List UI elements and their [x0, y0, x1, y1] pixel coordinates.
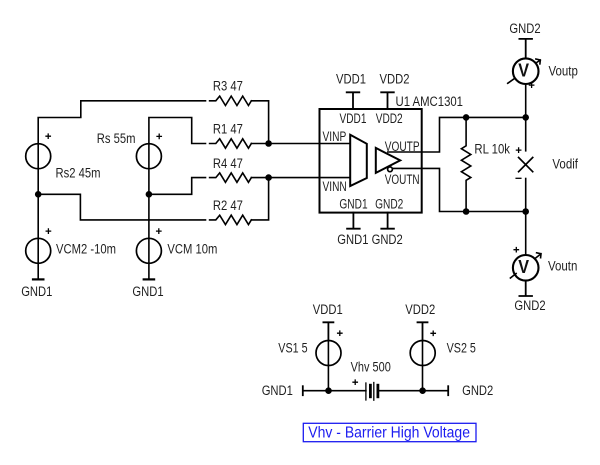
node VINN junction — [266, 175, 271, 180]
svg-text:VDD1: VDD1 — [336, 72, 366, 87]
pin GND2 bottom stub — [381, 213, 394, 229]
svg-text:RL 10k: RL 10k — [474, 141, 510, 156]
terminal VDD2 above VS2 — [418, 322, 428, 340]
wire VINN inside — [320, 177, 351, 179]
resistor R3 47 — [210, 96, 252, 105]
battery Vhv 500 — [366, 383, 378, 401]
node VINP junction — [266, 141, 271, 146]
svg-text:VDD1: VDD1 — [313, 302, 343, 317]
voltage source VS1 5 — [316, 341, 341, 366]
wire rail right — [378, 390, 448, 392]
svg-text:VOUTP: VOUTP — [385, 139, 420, 154]
svg-text:R1 47: R1 47 — [213, 122, 243, 137]
svg-text:R2 47: R2 47 — [213, 198, 243, 213]
terminal GND2 below Voutn — [519, 281, 532, 296]
terminal GND1 rail left end — [302, 386, 304, 395]
resistor R4 47 — [210, 173, 252, 182]
plus sign VCM — [157, 229, 161, 233]
voltage source Rs 55m — [136, 144, 161, 169]
node rail top junction — [523, 115, 528, 120]
svg-text:GND1: GND1 — [132, 284, 163, 299]
voltmeter Voutn — [513, 255, 539, 281]
ground GND1 under VCM2 — [33, 278, 43, 280]
svg-text:GND1: GND1 — [21, 284, 52, 299]
wire VS2 to rail — [422, 341, 424, 391]
svg-text:VDD1: VDD1 — [340, 111, 367, 126]
svg-text:GND2: GND2 — [375, 197, 403, 212]
plus sign Rs2 — [46, 134, 50, 138]
pin GND1 bottom stub — [347, 213, 360, 229]
svg-text:V: V — [518, 257, 529, 277]
ground GND1 under VCM — [144, 278, 154, 280]
node RL top junction — [464, 115, 469, 120]
minus sign Vodif — [516, 177, 521, 179]
node RL bottom junction — [464, 209, 469, 214]
svg-text:VDD2: VDD2 — [380, 72, 410, 87]
pin VDD2 top stub — [381, 92, 394, 109]
svg-text:Rs 55m: Rs 55m — [97, 131, 136, 146]
svg-text:VS2 5: VS2 5 — [447, 340, 476, 355]
terminal GND2 rail right end — [447, 386, 449, 395]
wire rail left — [303, 390, 366, 392]
output stage triangle — [376, 148, 400, 173]
terminal VDD1 above VS1 — [323, 322, 333, 340]
voltage source VS2 5 — [410, 341, 435, 366]
svg-text:VOUTN: VOUTN — [385, 172, 420, 187]
svg-text:Vodif: Vodif — [552, 156, 578, 171]
wire VOUTP inside and out — [388, 117, 526, 152]
svg-text:GND2: GND2 — [509, 21, 540, 36]
terminal GND2 above Voutp — [519, 39, 532, 59]
svg-text:VINP: VINP — [323, 129, 347, 144]
svg-text:V: V — [518, 60, 529, 80]
svg-text:Vhv - Barrier High Voltage: Vhv - Barrier High Voltage — [308, 425, 470, 442]
node Rs2 bottom junction — [36, 192, 41, 197]
wire VS1 to rail — [327, 341, 329, 391]
wire Voutp meter to rail — [525, 84, 527, 117]
svg-text:VDD2: VDD2 — [376, 111, 403, 126]
inversion bubble — [388, 167, 393, 172]
wire Rs2 bottom node to R2 — [38, 194, 205, 220]
svg-text:VCM 10m: VCM 10m — [167, 242, 217, 257]
resistor R1 47 — [210, 139, 252, 148]
svg-text:Voutp: Voutp — [549, 64, 578, 79]
wire R4 right to VINN pin — [251, 177, 319, 179]
pin VDD1 top stub — [347, 92, 360, 109]
plus sign VS1 — [338, 331, 342, 335]
wire R3 right to VINP node — [251, 101, 268, 144]
node VS1 rail junction — [326, 388, 331, 393]
node Rs bottom junction — [146, 192, 151, 197]
resistor RL 10k — [461, 117, 470, 211]
wire Rs2 through sources to ground — [37, 144, 39, 279]
input stage trapezoid — [350, 135, 367, 186]
svg-text:GND2: GND2 — [372, 232, 403, 247]
plus sign VS2 — [431, 331, 435, 335]
svg-text:R4 47: R4 47 — [213, 156, 243, 171]
wire Rs2 top to R3 — [38, 101, 205, 144]
plus sign VCM2 — [46, 229, 50, 233]
plus sign Rs — [157, 134, 161, 138]
svg-text:U1 AMC1301: U1 AMC1301 — [396, 94, 464, 109]
wire Rs top to R1 corner — [149, 118, 206, 144]
svg-text:GND1: GND1 — [262, 383, 293, 398]
svg-text:VDD2: VDD2 — [405, 302, 435, 317]
svg-text:VS1 5: VS1 5 — [278, 341, 307, 356]
op-amp U1 AMC1301 body — [320, 109, 422, 213]
svg-text:GND2: GND2 — [514, 298, 545, 313]
plus sign Vodif — [516, 148, 520, 152]
node VS2 rail junction — [420, 388, 425, 393]
svg-text:GND1: GND1 — [337, 232, 368, 247]
caption box Vhv Barrier High Voltage — [303, 423, 476, 441]
plus sign Voutp — [529, 83, 533, 87]
svg-text:GND1: GND1 — [339, 197, 367, 212]
svg-text:VINN: VINN — [323, 179, 347, 194]
voltage source VCM 10m — [136, 238, 161, 263]
wire Rs bottom node to R4 — [149, 178, 206, 195]
wire Rs through sources to ground — [148, 144, 150, 279]
wire rail X top segment — [525, 117, 527, 150]
plus sign Voutn — [514, 248, 518, 252]
svg-text:Rs2 45m: Rs2 45m — [56, 166, 101, 181]
voltmeter Vodif X — [519, 158, 533, 172]
resistor R2 47 — [210, 215, 252, 224]
svg-text:Vhv 500: Vhv 500 — [351, 359, 391, 374]
plus sign battery — [353, 380, 357, 384]
voltmeter Voutp — [513, 58, 539, 84]
svg-text:Voutn: Voutn — [548, 258, 577, 273]
svg-text:R3 47: R3 47 — [213, 79, 243, 94]
wire R2 right up to VINN node — [251, 178, 268, 220]
arrow Voutp — [508, 59, 541, 83]
node rail bottom junction — [523, 209, 528, 214]
wire rail X bottom segment — [525, 179, 527, 212]
voltage source Rs2 45m — [26, 144, 51, 169]
arrow Voutn — [510, 253, 541, 278]
wire VINP inside — [320, 143, 351, 145]
wire rail to Voutn meter — [525, 212, 527, 256]
svg-text:GND2: GND2 — [462, 383, 493, 398]
wire R1 right to VINP pin — [251, 143, 319, 145]
svg-text:VCM2 -10m: VCM2 -10m — [56, 242, 116, 257]
wire VOUTN inside and out — [392, 168, 525, 211]
voltage source VCM2 -10m — [26, 238, 51, 263]
